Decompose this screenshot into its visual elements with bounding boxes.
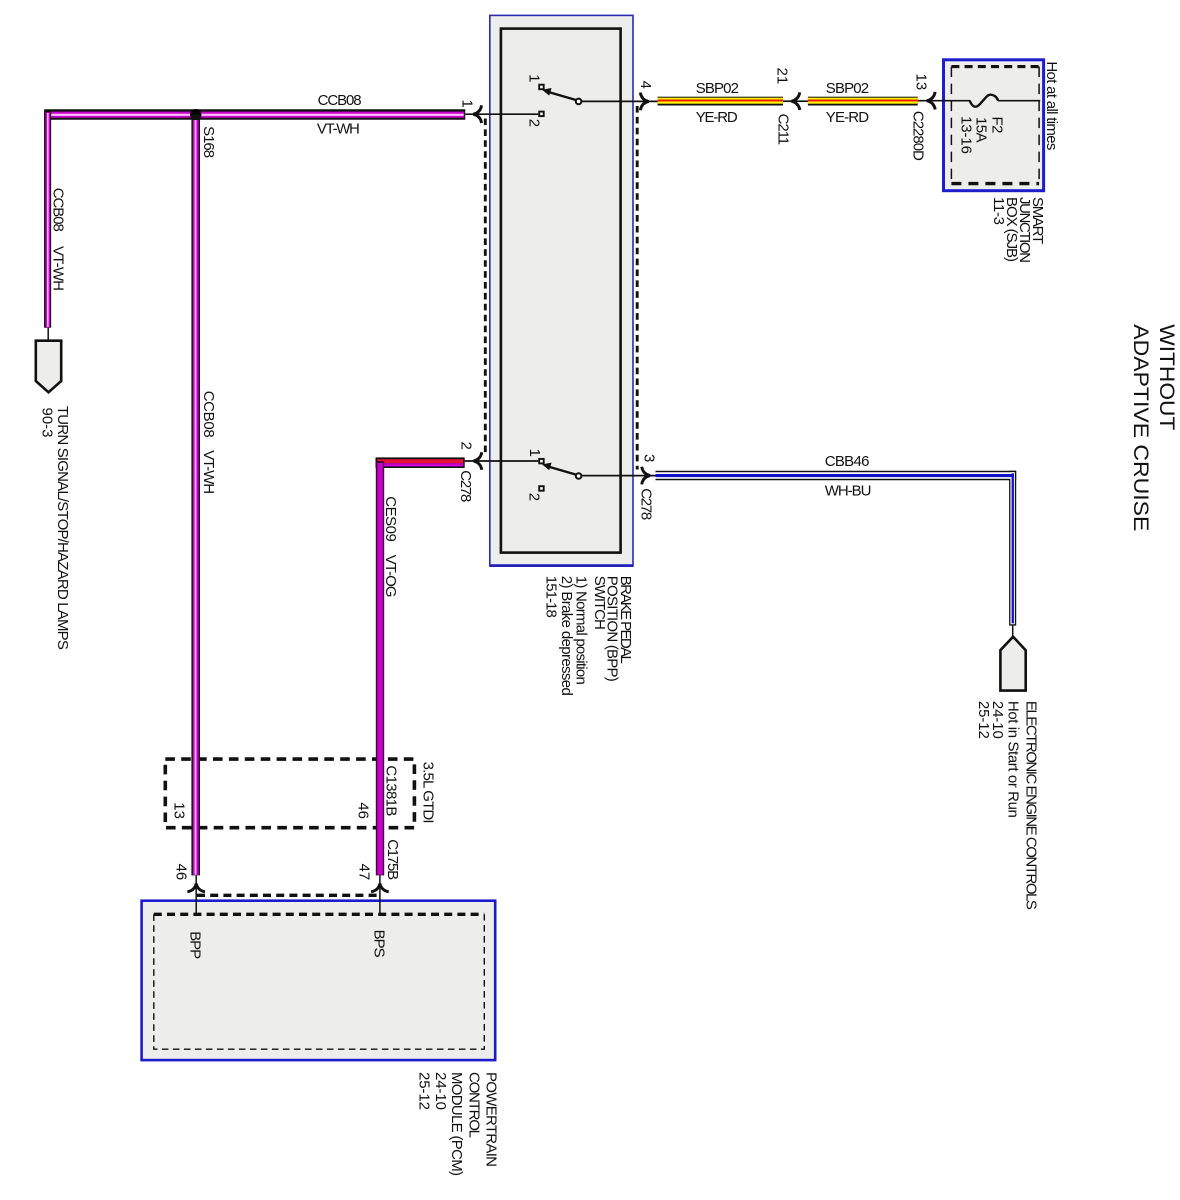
component box BRAKE PEDAL POSITION (BPP) SWITCH outer blue rect bbox=[490, 15, 633, 566]
svg-text:TURN SIGNAL/STOP/HAZARD LAMPS: TURN SIGNAL/STOP/HAZARD LAMPS bbox=[54, 406, 71, 650]
svg-text:ADAPTIVE CRUISE: ADAPTIVE CRUISE bbox=[1129, 324, 1152, 531]
BPP switch 2 pin 3 line from common bbox=[582, 475, 656, 477]
BPP switch 1 blade toward contact 1 bbox=[548, 92, 576, 100]
svg-text:VT-WH: VT-WH bbox=[200, 450, 217, 494]
svg-text:S168: S168 bbox=[200, 126, 217, 158]
svg-text:Hot at all times: Hot at all times bbox=[1043, 61, 1060, 150]
PCM inner dashed connector face (thick top) bbox=[154, 913, 485, 916]
wire link at connector C211 bbox=[783, 100, 808, 102]
BPP switch 1 contact 1 (square) bbox=[539, 85, 544, 90]
wire CCB08 VT-WH vertical from splice S168 down to PCM pin 46 bbox=[191, 115, 200, 876]
svg-text:4: 4 bbox=[637, 81, 654, 89]
svg-text:SBP02: SBP02 bbox=[826, 80, 869, 97]
off-page connector ELECTRONIC ENGINE CONTROLS (pentagon, point up) bbox=[1000, 637, 1025, 691]
svg-text:ELECTRONIC ENGINE CONTROLS: ELECTRONIC ENGINE CONTROLS bbox=[1023, 701, 1040, 910]
connector C278 dashed boundary right bbox=[636, 106, 639, 470]
svg-text:25-12: 25-12 bbox=[416, 1072, 433, 1110]
svg-text:YE-RD: YE-RD bbox=[696, 109, 738, 126]
svg-text:1: 1 bbox=[459, 100, 476, 108]
svg-text:BPS: BPS bbox=[371, 930, 388, 958]
svg-text:CES09: CES09 bbox=[382, 496, 399, 542]
svg-text:WITHOUT: WITHOUT bbox=[1155, 324, 1178, 430]
svg-text:3.5L GTDI: 3.5L GTDI bbox=[420, 762, 437, 824]
connector arrow BPP pin 4 bbox=[640, 93, 648, 111]
BPP switch 2 blade arrowhead bbox=[542, 463, 552, 471]
wire CCB08 VT-WH top horizontal (splice to BPP pin 1) bbox=[44, 109, 465, 120]
wire CES09 VT-OG horizontal from BPP pin 2 bbox=[376, 457, 465, 468]
BPP switch 2 common terminal (circle) bbox=[576, 473, 582, 479]
svg-text:VT-OG: VT-OG bbox=[382, 555, 399, 598]
fuse F2 15A element (S-curve) bbox=[970, 95, 999, 107]
svg-text:151-18: 151-18 bbox=[543, 576, 560, 618]
svg-text:BPP: BPP bbox=[187, 931, 204, 959]
svg-text:3: 3 bbox=[641, 454, 658, 462]
svg-text:2: 2 bbox=[458, 442, 475, 450]
svg-text:2) Brake depressed: 2) Brake depressed bbox=[558, 576, 575, 696]
svg-text:CCB08: CCB08 bbox=[49, 188, 66, 232]
svg-text:CONTROL: CONTROL bbox=[466, 1072, 483, 1138]
component box SMART JUNCTION BOX (SJB) blue rect bbox=[944, 60, 1044, 191]
svg-text:11-3: 11-3 bbox=[990, 197, 1007, 225]
svg-text:MODULE (PCM): MODULE (PCM) bbox=[448, 1072, 465, 1176]
svg-text:13: 13 bbox=[171, 802, 188, 819]
svg-text:1: 1 bbox=[526, 449, 543, 457]
lead line BPS wire into PCM pin 47 bbox=[379, 875, 381, 914]
connector arrow BPP pin 1 bbox=[473, 105, 481, 123]
svg-text:CCB08: CCB08 bbox=[318, 92, 362, 109]
svg-text:C175B: C175B bbox=[384, 839, 401, 880]
svg-text:13-16: 13-16 bbox=[958, 116, 975, 154]
lead line into turn signal connector bbox=[47, 328, 49, 342]
svg-text:90-3: 90-3 bbox=[39, 408, 56, 438]
wire link fuse to SJB inner edge bbox=[998, 100, 1040, 102]
PCM connector dashed line between pins 46 and 47 bbox=[197, 894, 381, 897]
svg-text:CCB08: CCB08 bbox=[200, 391, 217, 438]
svg-text:47: 47 bbox=[356, 864, 373, 881]
svg-text:C1381B: C1381B bbox=[383, 765, 400, 816]
connector arrow SJB C2280D pin 13 bbox=[927, 92, 935, 110]
BPP switch 2 pin 2 line into contact 1 bbox=[465, 460, 539, 462]
svg-text:C278: C278 bbox=[457, 470, 474, 502]
svg-text:F2: F2 bbox=[988, 117, 1005, 134]
lead line BPP wire into PCM pin 46 bbox=[195, 875, 197, 914]
BPP switch 2 contact 2 (square) bbox=[539, 486, 544, 491]
BPP switch 1 pin 1 line into contact 2 bbox=[465, 113, 538, 115]
SJB inner dashed rect bbox=[951, 65, 1039, 68]
svg-text:13: 13 bbox=[913, 74, 930, 91]
connector C278 dashed boundary left bbox=[484, 119, 487, 456]
off-page connector TURN SIGNAL/STOP/HAZARD LAMPS (pentagon, point down) bbox=[36, 341, 61, 393]
svg-text:VT-WH: VT-WH bbox=[317, 121, 360, 138]
svg-text:1: 1 bbox=[526, 74, 543, 82]
wire CBB46 WH-BU from BPP pin 3 to electronic engine controls bbox=[656, 471, 1017, 626]
svg-text:46: 46 bbox=[355, 802, 372, 819]
svg-text:CBB46: CBB46 bbox=[825, 453, 870, 470]
connector arrow BPP pin 3 bbox=[642, 467, 650, 485]
splice S168 bbox=[190, 109, 201, 120]
wire CCB08 VT-WH left vertical branch to turn signal lamps bbox=[44, 111, 51, 328]
svg-text:2: 2 bbox=[526, 493, 543, 501]
lead line into electronic engine controls connector bbox=[1012, 626, 1014, 638]
connector arrow BPP pin 2 bbox=[474, 452, 482, 470]
svg-text:SBP02: SBP02 bbox=[696, 80, 739, 97]
svg-text:24-10: 24-10 bbox=[432, 1072, 449, 1110]
wire link into SJB to fuse F2 bbox=[918, 100, 971, 102]
svg-text:C211: C211 bbox=[775, 114, 792, 146]
svg-text:POWERTRAIN: POWERTRAIN bbox=[483, 1072, 500, 1167]
BPP switch inner black rect bbox=[501, 29, 621, 553]
svg-text:21: 21 bbox=[774, 68, 791, 85]
wire CES09 VT-OG vertical down to PCM pin 47 bbox=[376, 461, 384, 875]
connector arrow PCM pin 47 bbox=[371, 884, 389, 892]
component box POWERTRAIN CONTROL MODULE (PCM) blue rect bbox=[142, 901, 496, 1060]
BPP switch 1 pin 4 line from common bbox=[582, 100, 658, 102]
svg-text:25-12: 25-12 bbox=[975, 701, 992, 739]
svg-text:46: 46 bbox=[173, 864, 190, 881]
svg-text:WH-BU: WH-BU bbox=[825, 482, 872, 499]
svg-text:Hot in Start or Run: Hot in Start or Run bbox=[1005, 701, 1022, 818]
wire SBP02 YE-RD segment C211 to SJB C2280D bbox=[808, 97, 918, 106]
title WITHOUT ADAPTIVE CRUISE bbox=[1129, 324, 1178, 531]
connector arrow C211 bbox=[792, 92, 800, 110]
BPP switch 2 blade toward contact 1 bbox=[548, 467, 576, 475]
svg-text:C2280D: C2280D bbox=[910, 111, 927, 161]
svg-text:SWITCH: SWITCH bbox=[591, 576, 608, 630]
BPP switch 1 contact 2 (square) bbox=[539, 112, 544, 117]
svg-text:YE-RD: YE-RD bbox=[826, 109, 869, 126]
wire SBP02 YE-RD segment BPP pin 4 to C211 bbox=[658, 97, 783, 106]
BPP switch 1 blade arrowhead bbox=[542, 88, 552, 96]
engine option dashed box 3.5L GTDI / C1381B bbox=[165, 759, 414, 828]
BPP switch 2 contact 1 (square) bbox=[539, 459, 544, 464]
connector arrow PCM pin 46 bbox=[187, 884, 205, 892]
PCM inner dashed rect sides and bottom bbox=[154, 914, 485, 1049]
svg-text:2: 2 bbox=[526, 119, 543, 127]
BPP switch 1 common terminal (circle) bbox=[576, 99, 582, 105]
svg-text:VT-WH: VT-WH bbox=[49, 246, 66, 291]
svg-text:C278: C278 bbox=[638, 488, 655, 520]
BPP switch bottom blue edge (thicker) bbox=[490, 564, 633, 567]
